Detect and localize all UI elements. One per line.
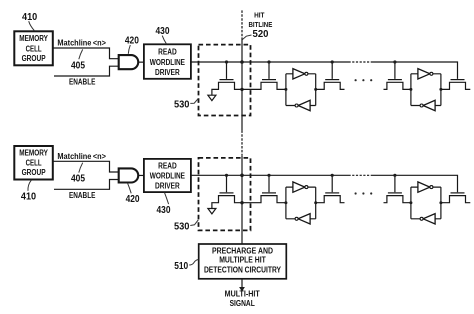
wire and-gate output to driver (row 1): [138, 61, 144, 63]
ellipsis dots (row 1): [355, 79, 373, 81]
node: wordline x bitline junction (row 1): [240, 60, 244, 64]
wire enable row 1: [54, 66, 119, 76]
transistor Q2 (row 2): [242, 175, 286, 202]
label 530 (row 2): [174, 220, 198, 233]
transistor Q4 (row 1): [384, 62, 411, 89]
svg-text:520: 520: [253, 29, 269, 40]
hit bitline: dashed between rows: [241, 130, 243, 155]
and-gate 420 (row 1): [119, 55, 139, 69]
svg-text:DRIVER: DRIVER: [155, 68, 180, 77]
svg-text:420: 420: [125, 36, 139, 47]
precharge and multiple hit detection circuitry box 510: [199, 244, 287, 279]
node: Q3 gate tap (row 2): [331, 174, 334, 177]
node: bitline drain junction (row 1): [240, 88, 243, 91]
svg-text:DRIVER: DRIVER: [155, 181, 180, 190]
node: latch L2 left tap (row 1): [409, 88, 412, 91]
transistor Q2 (row 1): [242, 62, 286, 89]
transistor Q5 (row 1, wordline end): [441, 80, 470, 90]
transistor Q1 in dashed box (row 1): [212, 62, 242, 95]
svg-text:405: 405: [71, 60, 86, 71]
svg-text:BITLINE: BITLINE: [248, 20, 272, 29]
transistor Q1 in dashed box (row 2): [212, 175, 242, 208]
inverter top (L2 row 1): [418, 69, 430, 79]
svg-text:READ: READ: [158, 162, 177, 171]
node: latch L1 left tap (row 2): [284, 201, 287, 204]
svg-text:WORDLINE: WORDLINE: [150, 172, 185, 181]
svg-text:WORDLINE: WORDLINE: [150, 58, 185, 67]
wire matchline row 2: [54, 161, 119, 172]
node: wordline x bitline junction (row 2): [240, 174, 244, 178]
svg-text:405: 405: [71, 174, 86, 185]
node: Q4 gate tap (row 2): [393, 174, 396, 177]
node: Q3 gate tap (row 1): [331, 60, 334, 63]
label 530 (row 1): [174, 98, 198, 110]
node: bitline drain junction (row 2): [240, 201, 243, 204]
svg-text:ENABLE: ENABLE: [69, 191, 95, 200]
wire read wordline dashed gap (row 1): [349, 61, 373, 63]
svg-text:PRECHARGE AND: PRECHARGE AND: [212, 247, 273, 256]
svg-text:GROUP: GROUP: [22, 54, 46, 63]
latch L2 (row 2): [411, 182, 441, 224]
node: Q1 gate tap on wordline (row 1): [225, 60, 228, 63]
svg-text:MULTI-HIT: MULTI-HIT: [225, 290, 260, 299]
hit bitline: solid through row 1: [241, 37, 243, 130]
and-gate 420 (row 2): [119, 168, 139, 182]
svg-text:420: 420: [126, 194, 140, 205]
svg-text:HIT: HIT: [254, 10, 265, 19]
wire read wordline right + bend into last gate (row 2): [372, 175, 458, 192]
node: latch L2 left tap (row 2): [409, 201, 412, 204]
label 430 (row 2): [157, 193, 171, 216]
node: Q2 gate tap (row 1): [267, 60, 270, 63]
svg-text:Matchline <n>: Matchline <n>: [57, 39, 106, 48]
dashed box 530 (row 2): [199, 158, 251, 231]
svg-text:DETECTION CIRCUITRY: DETECTION CIRCUITRY: [204, 265, 282, 274]
transistor Q5 (row 2, wordline end): [441, 193, 470, 203]
transistor Q3 (row 2): [316, 175, 345, 202]
wire read wordline right + bend into last gate (row 1): [372, 62, 458, 79]
svg-text:READ: READ: [158, 48, 177, 57]
wire read wordline dashed gap (row 2): [349, 174, 373, 176]
latch L2 (row 1): [411, 69, 441, 111]
svg-text:SIGNAL: SIGNAL: [230, 299, 255, 308]
node: latch L2 right tap (row 2): [439, 201, 442, 204]
svg-text:530: 530: [174, 222, 190, 233]
svg-text:MEMORY: MEMORY: [19, 149, 48, 158]
multi-hit signal output arrow: [239, 279, 245, 292]
label 410 (row 1): [22, 12, 37, 31]
label MULTI-HIT SIGNAL: [225, 290, 260, 308]
svg-text:410: 410: [21, 192, 36, 203]
node: latch L1 right tap (row 1): [314, 88, 317, 91]
label 405 (row 2): [71, 163, 86, 185]
hit bitline: solid through row 2 to precharge box: [241, 156, 243, 244]
label 420 (row 2): [126, 183, 140, 205]
memory cell group box (row 1): [14, 31, 53, 65]
inverter top (L2 row 2): [418, 182, 430, 192]
inverter bottom (L1 row 1): [298, 100, 310, 110]
inverter top (L1 row 1): [293, 69, 305, 79]
wire enable row 2: [54, 180, 119, 190]
svg-text:530: 530: [174, 100, 190, 111]
inverter bottom (L2 row 1): [423, 100, 435, 110]
svg-text:MEMORY: MEMORY: [19, 34, 48, 43]
node: latch L1 left tap (row 1): [284, 88, 287, 91]
label 410 (row 2): [21, 180, 36, 202]
svg-text:510: 510: [174, 261, 188, 272]
ellipsis dots (row 2): [355, 192, 373, 194]
read wordline driver box (row 1): [144, 44, 191, 79]
svg-text:410: 410: [22, 12, 37, 23]
node: latch L2 right tap (row 1): [439, 88, 442, 91]
label 510: [174, 260, 198, 272]
latch L1 (row 2): [286, 182, 316, 224]
svg-text:MULTIPLE HIT: MULTIPLE HIT: [219, 256, 266, 265]
label 520: [242, 29, 268, 40]
latch L1 (row 1): [286, 69, 316, 111]
transistor Q4 (row 2): [384, 175, 411, 202]
inverter top (L1 row 2): [293, 182, 305, 192]
transistor Q3 (row 1): [316, 62, 345, 89]
read wordline driver box (row 2): [144, 159, 191, 192]
node: Q1 gate tap on wordline (row 2): [225, 174, 228, 177]
memory cell group box (row 2): [14, 146, 53, 180]
label HIT BITLINE: [248, 10, 272, 29]
svg-text:Matchline <n>: Matchline <n>: [57, 152, 106, 161]
inverter bottom (L2 row 2): [423, 214, 435, 224]
ground (row 1): [208, 95, 216, 100]
svg-text:CELL: CELL: [26, 159, 42, 168]
inverter bottom (L1 row 2): [298, 214, 310, 224]
node: latch L1 right tap (row 2): [314, 201, 317, 204]
wire read wordline (row 2): [191, 174, 349, 176]
wire and-gate output to driver (row 2): [138, 174, 144, 176]
svg-text:430: 430: [157, 205, 171, 216]
node: Q2 gate tap (row 2): [267, 174, 270, 177]
label 420 (row 1): [125, 36, 139, 54]
node: Q4 gate tap (row 1): [393, 60, 396, 63]
dashed box 530 (row 1): [199, 45, 251, 116]
svg-text:ENABLE: ENABLE: [69, 78, 95, 87]
label 430 (row 1): [156, 26, 170, 44]
hit bitline 520 : top dashed segment: [241, 10, 243, 37]
wire matchline row 1: [54, 48, 119, 59]
wire read wordline (row 1): [191, 61, 349, 63]
ground (row 2): [208, 209, 216, 214]
svg-text:GROUP: GROUP: [22, 168, 46, 177]
label 405 (row 1): [71, 49, 86, 71]
svg-text:CELL: CELL: [26, 44, 42, 53]
